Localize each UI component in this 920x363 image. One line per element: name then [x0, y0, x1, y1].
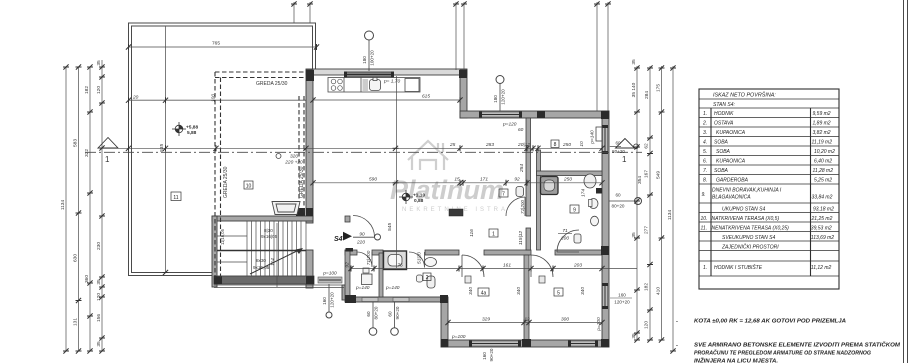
svg-text:p= 1,70: p= 1,70	[383, 79, 400, 85]
door bath 1	[357, 252, 372, 267]
door bath 2	[409, 252, 425, 268]
svg-text:120: 120	[644, 321, 650, 329]
svg-text:8|30: 8|30	[264, 228, 273, 233]
window south bedroom 2	[570, 341, 596, 346]
corridor dimension line	[350, 268, 637, 270]
svg-text:8x30: 8x30	[256, 258, 266, 263]
wall east of building	[602, 111, 609, 347]
section line 1-1 dash dot	[85, 151, 642, 153]
svg-text:9x16|05: 9x16|05	[261, 234, 278, 239]
svg-text:p=100: p=100	[596, 317, 602, 332]
svg-text:10: 10	[579, 141, 585, 147]
svg-text:15: 15	[454, 177, 460, 183]
svg-text:39,53 m2: 39,53 m2	[811, 225, 832, 231]
svg-text:410: 410	[656, 287, 662, 295]
wall divider baths bottom	[379, 253, 383, 297]
svg-text:KUPAONICA: KUPAONICA	[716, 130, 746, 136]
svg-text:BLAGAVAONICA: BLAGAVAONICA	[712, 195, 751, 201]
terrace interior line vertical	[165, 26, 167, 273]
stair direction arrow	[250, 249, 301, 274]
svg-text:590: 590	[369, 177, 377, 183]
wall corridor north side segments	[345, 250, 357, 255]
elevation marker living room	[399, 190, 413, 204]
svg-text:S4: S4	[334, 236, 343, 243]
svg-text:220 +20: 220 +20	[284, 160, 303, 166]
window east wall upper p=140	[603, 127, 608, 152]
svg-text:-: -	[676, 343, 678, 349]
svg-text:12: 12	[524, 316, 530, 322]
svg-text:11.: 11.	[701, 225, 708, 231]
svg-text:ISKAZ NETO POVRŠINA:: ISKAZ NETO POVRŠINA:	[713, 92, 776, 99]
svg-text:4.: 4.	[703, 139, 707, 145]
svg-text:SOBA: SOBA	[716, 149, 731, 155]
wall west bedroom block	[441, 302, 448, 347]
svg-text:545: 545	[387, 223, 393, 231]
svg-text:182: 182	[84, 86, 90, 94]
svg-text:60: 60	[388, 311, 393, 317]
svg-text:35: 35	[96, 60, 102, 66]
column circle top-left with leader	[365, 31, 374, 71]
svg-text:549: 549	[656, 171, 662, 179]
svg-text:71: 71	[562, 228, 568, 234]
svg-text:329: 329	[482, 316, 490, 322]
column circle bottom-1 with leader	[326, 284, 332, 318]
wall bath west vertical	[526, 118, 531, 216]
svg-text:7.: 7.	[703, 168, 707, 174]
svg-text:90+20: 90+20	[489, 348, 494, 361]
svg-text:171: 171	[480, 177, 488, 183]
svg-text:60: 60	[518, 127, 524, 133]
svg-text:80+20: 80+20	[612, 204, 625, 209]
stair south flight dark band	[214, 276, 314, 284]
svg-text:35: 35	[631, 333, 637, 339]
stairs	[217, 221, 306, 276]
svg-text:OSTAVA: OSTAVA	[714, 120, 734, 126]
wall south bedrooms	[441, 340, 609, 347]
washbasin bath2	[425, 258, 437, 267]
window stair south p=100	[318, 277, 342, 283]
section marker right triangle 1	[616, 139, 635, 149]
svg-text:1134: 1134	[667, 210, 673, 221]
svg-text:11|16,05: 11|16,05	[220, 228, 225, 245]
svg-text:DNEVNI BORAVAK,KUHINJA I: DNEVNI BORAVAK,KUHINJA I	[712, 188, 782, 194]
svg-text:5,88: 5,88	[187, 130, 197, 136]
svg-text:114: 114	[270, 258, 276, 266]
top dimension line 615	[313, 99, 460, 101]
toilet in WC room	[516, 187, 524, 197]
svg-text:4a: 4a	[481, 291, 487, 297]
svg-text:71|200: 71|200	[366, 250, 372, 265]
svg-text:92: 92	[514, 177, 520, 183]
svg-text:156: 156	[96, 314, 102, 322]
svg-text:11: 11	[173, 195, 178, 201]
svg-text:HODNIK: HODNIK	[714, 111, 734, 117]
svg-text:300: 300	[561, 316, 569, 322]
wall west of building	[306, 70, 313, 223]
dark cabinet living room	[449, 209, 463, 216]
black piers at wall junctions	[214, 70, 609, 347]
svg-text:3.: 3.	[703, 130, 707, 136]
svg-text:60: 60	[366, 311, 371, 317]
svg-text:535: 535	[159, 144, 165, 152]
kitchen sink	[370, 78, 381, 91]
svg-text:7: 7	[502, 192, 505, 198]
svg-text:6.: 6.	[703, 158, 707, 164]
svg-text:1,89 m2: 1,89 m2	[813, 120, 831, 126]
wall west stair block	[212, 216, 217, 287]
svg-text:5: 5	[557, 291, 560, 297]
svg-text:120+20: 120+20	[614, 300, 630, 305]
door bedroom 5 from corridor	[557, 230, 579, 252]
wall shaft east / bath west	[537, 150, 541, 250]
doors (quarter arcs)	[353, 197, 579, 277]
planter trapezoid on terrace	[272, 202, 300, 215]
table text	[701, 92, 836, 272]
svg-text:STAN S4:: STAN S4:	[713, 102, 735, 108]
beam GREDA dashed vertical left	[214, 72, 216, 278]
svg-text:60: 60	[615, 141, 621, 146]
interior vertical thin line living/hall	[396, 76, 398, 268]
svg-text:PRORAČUNU TE PREGLEDOM ARMATUR: PRORAČUNU TE PREGLEDOM ARMATURE OD STRAN…	[694, 349, 871, 357]
svg-text:230: 230	[96, 242, 102, 250]
wall south bath block	[345, 297, 448, 302]
svg-text:5.: 5.	[703, 149, 707, 155]
svg-text:203: 203	[573, 262, 582, 268]
svg-text:SVEUKUPNO STAN S4: SVEUKUPNO STAN S4	[722, 235, 775, 241]
terrace interior line horizontal	[129, 99, 307, 101]
terrace outline double rectangle	[129, 23, 316, 276]
svg-text:+1,10: +1,10	[413, 193, 425, 199]
window east wall lower	[603, 285, 608, 307]
svg-text:5,25 m2: 5,25 m2	[814, 177, 832, 183]
svg-text:277: 277	[644, 226, 650, 234]
svg-text:60: 60	[615, 193, 621, 198]
door leaf bedroom 4a	[465, 276, 471, 283]
parapet labels	[322, 122, 523, 341]
door main entry S4	[353, 216, 375, 238]
left chain ticks	[63, 64, 69, 69]
door WC	[506, 197, 525, 216]
svg-text:9.: 9.	[702, 192, 706, 198]
radiators east wall	[596, 127, 602, 141]
svg-text:1.: 1.	[703, 111, 707, 117]
washbasin top bath	[584, 174, 596, 188]
window north right p=120	[480, 112, 521, 117]
svg-text:62: 62	[644, 143, 650, 149]
frame: right page border double line	[904, 0, 908, 363]
svg-text:120: 120	[96, 86, 102, 94]
svg-text:90: 90	[359, 232, 365, 238]
left chain labels	[60, 60, 102, 347]
svg-text:SVE ARMIRANO BETONSKE ELEMENTE: SVE ARMIRANO BETONSKE ELEMENTE IZVODITI …	[694, 341, 900, 349]
svg-text:284: 284	[644, 91, 650, 99]
svg-text:KUPAONICA: KUPAONICA	[716, 158, 746, 164]
svg-text:ZAJEDNIČKI PROSTORI: ZAJEDNIČKI PROSTORI	[721, 243, 779, 250]
svg-text:35 140: 35 140	[631, 82, 637, 97]
svg-text:11,19 m2: 11,19 m2	[812, 139, 833, 145]
svg-text:354: 354	[637, 176, 643, 184]
wall jog east of kitchen	[460, 70, 467, 118]
svg-text:340: 340	[516, 287, 522, 295]
column circle bottom-2 with leader	[369, 302, 377, 335]
svg-text:9: 9	[573, 208, 576, 214]
svg-text:115|12: 115|12	[518, 231, 524, 246]
svg-text:120+20: 120+20	[501, 89, 506, 105]
svg-text:254: 254	[519, 164, 525, 173]
top extension lines with break ticks	[294, 2, 608, 111]
svg-text:160: 160	[322, 297, 327, 305]
wall north stair block	[212, 216, 313, 221]
svg-text:p=140: p=140	[355, 285, 370, 291]
window bath south	[362, 298, 378, 302]
svg-text:35: 35	[96, 341, 102, 347]
svg-text:35: 35	[96, 279, 102, 285]
svg-text:2: 2	[426, 275, 429, 281]
svg-text:SOBA: SOBA	[714, 168, 729, 174]
svg-text:p=120: p=120	[502, 122, 517, 128]
svg-text:21,25 m2: 21,25 m2	[811, 216, 833, 222]
toilet top bath	[589, 199, 598, 209]
elevation marker terrace	[172, 122, 186, 136]
svg-text:200: 200	[560, 236, 569, 242]
interior walls	[345, 118, 602, 340]
svg-text:180: 180	[362, 56, 367, 64]
door pivot circle S4	[375, 234, 381, 240]
shower bottom bath	[384, 251, 407, 270]
svg-text:131: 131	[73, 318, 79, 326]
svg-text:33,84 m2: 33,84 m2	[812, 195, 833, 201]
beam GREDA dashed horizontal top	[215, 72, 306, 278]
windows	[318, 72, 608, 347]
interior vertical thin line at stair	[276, 223, 278, 287]
shower top bath	[541, 177, 559, 195]
right chain labels	[631, 59, 673, 339]
svg-text:90+20: 90+20	[395, 306, 400, 319]
svg-text:340: 340	[580, 287, 586, 295]
svg-text:340: 340	[468, 287, 474, 295]
svg-text:GREDA 25/30: GREDA 25/30	[223, 166, 229, 198]
toilet bottom bath	[427, 276, 435, 288]
svg-text:630: 630	[73, 254, 79, 262]
svg-text:25: 25	[449, 142, 456, 148]
stair lower flight risers	[247, 251, 301, 276]
svg-text:174: 174	[581, 189, 587, 197]
beam GREDA dashed vertical at west wall	[298, 96, 300, 216]
bedroom dimension line	[448, 322, 602, 324]
door leaf bedroom 5	[539, 276, 545, 283]
svg-text:1134: 1134	[60, 200, 66, 211]
svg-text:SOBA: SOBA	[714, 139, 729, 145]
rotated 340 labels	[159, 141, 587, 295]
svg-text:583: 583	[73, 139, 79, 147]
boxed room labels	[171, 140, 579, 296]
stair upper flight risers	[247, 221, 301, 250]
window kitchen north	[346, 72, 392, 77]
exterior walls of building (gray poche with dark edges)	[212, 69, 609, 347]
svg-text:UKUPNO STAN S4: UKUPNO STAN S4	[722, 206, 765, 212]
svg-text:80+20: 80+20	[612, 149, 625, 154]
wall north kitchen	[306, 69, 467, 75]
svg-text:11,28 m2: 11,28 m2	[813, 168, 834, 174]
left dimension chain lines	[66, 60, 102, 351]
wall divider bedrooms	[524, 255, 529, 340]
svg-text:180: 180	[493, 95, 498, 103]
svg-text:20|12: 20|12	[517, 142, 530, 148]
svg-text:8: 8	[554, 142, 557, 148]
svg-text:6,40 m2: 6,40 m2	[814, 158, 832, 164]
svg-text:120: 120	[96, 293, 102, 301]
svg-text:0,88: 0,88	[414, 198, 424, 204]
stair outline	[217, 221, 306, 276]
svg-text:3,82 m2: 3,82 m2	[813, 130, 831, 136]
svg-text:120+20: 120+20	[330, 292, 335, 308]
svg-text:100+20: 100+20	[370, 50, 375, 66]
svg-text:160: 160	[482, 352, 487, 360]
svg-text:1: 1	[105, 155, 110, 164]
small sink near corridor door	[574, 234, 581, 243]
svg-text:p=140: p=140	[590, 130, 596, 145]
wall jog stair to bath	[342, 285, 347, 300]
svg-text:1.: 1.	[703, 265, 707, 271]
svg-text:35: 35	[631, 232, 637, 238]
watermark logo	[390, 141, 508, 213]
svg-text:250: 250	[562, 142, 571, 148]
stove burners	[331, 79, 342, 90]
svg-text:20: 20	[132, 95, 139, 101]
wall thin south edge of stair block	[214, 285, 344, 288]
svg-text:1: 1	[622, 155, 627, 164]
kitchen counter	[328, 78, 420, 93]
svg-text:9x16,05: 9x16,05	[253, 265, 270, 270]
top dimension line 765	[129, 46, 317, 48]
right dimension chain lines	[637, 66, 673, 351]
bidet bath2	[417, 275, 423, 282]
svg-text:1: 1	[492, 232, 495, 238]
main horizontal dimension line across plan	[100, 147, 602, 149]
svg-text:80+20: 80+20	[374, 306, 379, 319]
column circle bottom-3 with leader	[391, 302, 399, 335]
svg-text:175: 175	[656, 84, 662, 92]
svg-text:NATKRIVENA TERASA (X0,5): NATKRIVENA TERASA (X0,5)	[712, 216, 780, 222]
svg-text:+5,88: +5,88	[186, 125, 198, 131]
svg-text:615: 615	[422, 94, 430, 100]
svg-text:GREDA 25/30: GREDA 25/30	[256, 81, 288, 87]
svg-text:765: 765	[212, 41, 220, 47]
svg-text:p=100: p=100	[451, 334, 466, 340]
door bedroom 5 lower	[531, 255, 553, 277]
svg-text:250: 250	[563, 177, 572, 183]
svg-text:8.: 8.	[703, 177, 707, 183]
svg-text:GARDEROBA: GARDEROBA	[716, 177, 749, 183]
right chain ticks	[634, 65, 640, 70]
svg-text:9,59 m2: 9,59 m2	[813, 111, 831, 117]
svg-text:HODNIK I STUBIŠTE: HODNIK I STUBIŠTE	[714, 264, 763, 271]
svg-text:10.: 10.	[701, 216, 708, 222]
svg-text:p=140: p=140	[385, 285, 400, 291]
svg-text:220: 220	[356, 240, 365, 246]
svg-text:160: 160	[618, 293, 626, 298]
wall north right part	[460, 111, 609, 118]
svg-text:71|200: 71|200	[520, 200, 525, 214]
interior dimension line 590	[313, 182, 602, 184]
svg-text:p=100: p=100	[322, 271, 337, 277]
svg-text:51|20: 51|20	[417, 252, 423, 264]
section marker left triangle 1	[98, 138, 118, 149]
stair middle landing line	[217, 250, 306, 252]
wall west hall lower	[306, 250, 313, 288]
svg-text:93,18 m2: 93,18 m2	[813, 206, 834, 212]
column circle top-mid with leader	[496, 76, 504, 112]
svg-text:NENATKRIVENA TERASA (X0,25): NENATKRIVENA TERASA (X0,25)	[712, 225, 790, 231]
svg-text:100: 100	[211, 94, 217, 102]
svg-text:161: 161	[503, 262, 511, 268]
svg-text:10: 10	[246, 184, 252, 190]
svg-text:11,12 m2: 11,12 m2	[811, 265, 832, 271]
window south bedroom 1	[471, 341, 519, 346]
door bedroom 4a	[462, 255, 484, 277]
column circle east with leader	[609, 198, 642, 205]
svg-text:113,69 m2: 113,69 m2	[811, 235, 834, 241]
washing machine bath1	[362, 274, 373, 285]
svg-text:360: 360	[84, 275, 90, 283]
svg-text:116: 116	[469, 229, 475, 237]
wall west of bath block	[345, 250, 350, 300]
svg-text:76: 76	[397, 262, 403, 268]
svg-text:2.: 2.	[702, 120, 707, 126]
svg-text:283: 283	[485, 142, 494, 148]
svg-text:10,20 m2: 10,20 m2	[814, 149, 835, 155]
svg-text:182: 182	[644, 283, 650, 291]
svg-text:92: 92	[345, 262, 351, 268]
svg-text:322: 322	[84, 149, 90, 157]
area table	[699, 89, 839, 289]
svg-text:KOTA ±0,00 RK = 12,68 AK GOTOV: KOTA ±0,00 RK = 12,68 AK GOTOVI POD PRIZ…	[694, 319, 846, 325]
wall bath north	[537, 171, 603, 176]
svg-text:320: 320	[290, 154, 298, 160]
svg-text:167: 167	[644, 170, 650, 178]
svg-text:35: 35	[631, 59, 637, 65]
svg-text:-: -	[676, 319, 678, 325]
svg-text:GREDA 25/30: GREDA 25/30	[299, 166, 305, 198]
